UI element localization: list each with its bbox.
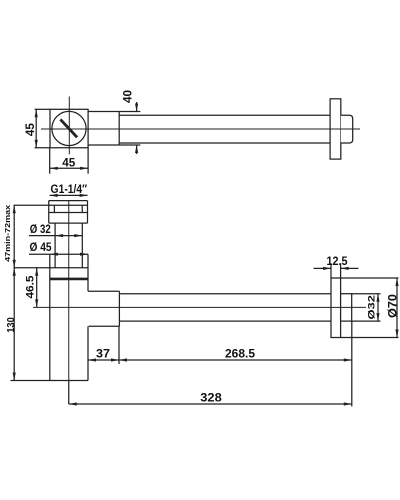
- compression nut (top view): [88, 111, 140, 113]
- G1-1/4 thread block: [49, 200, 88, 202]
- trap body cap top: [14, 267, 89, 269]
- dimension Ø32 inlet tube: [29, 235, 82, 237]
- svg-text:Ø32: Ø32: [366, 295, 377, 320]
- svg-text:47min-72max: 47min-72max: [3, 204, 12, 262]
- dimension 45 horizontal (bottom): [49, 148, 51, 174]
- round face with screw slot (top view): [52, 111, 86, 145]
- svg-text:40: 40: [121, 90, 135, 103]
- svg-text:45: 45: [23, 123, 37, 136]
- dimension 130: [13, 268, 15, 381]
- horizontal centerline (top view axis): [41, 128, 360, 130]
- outlet pipe: [119, 293, 331, 295]
- dimension Ø45 body: [29, 253, 88, 255]
- dimension G1-1/4 thread: [50, 194, 88, 196]
- svg-text:46.5: 46.5: [24, 276, 36, 299]
- svg-text:328: 328: [200, 390, 222, 404]
- svg-text:Ø 32: Ø 32: [30, 222, 51, 236]
- dimension 268.5: [119, 359, 352, 361]
- svg-text:268.5: 268.5: [225, 347, 255, 361]
- screw slot diagonal: [60, 119, 77, 137]
- outlet axis centerline: [33, 306, 366, 308]
- svg-text:Ø70: Ø70: [387, 294, 399, 318]
- svg-text:G1-1/4″: G1-1/4″: [51, 182, 88, 196]
- dimension 46.5: [36, 268, 38, 308]
- inlet tube: [54, 223, 56, 268]
- pipe stub behind wall (bottom view): [341, 294, 352, 321]
- outlet tube (top view): [119, 114, 330, 116]
- vertical centerline of wall plate: [68, 97, 70, 155]
- trap body (bottle): [49, 268, 51, 381]
- svg-text:130: 130: [6, 317, 17, 333]
- svg-text:Ø 45: Ø 45: [30, 240, 52, 254]
- dimension 12.5 flange: [314, 267, 332, 269]
- dimension Ø70 flange: [341, 277, 399, 279]
- dimension Ø32 wall pipe: [352, 293, 381, 295]
- wall flange (bottom view): [331, 278, 341, 338]
- pipe stub behind wall (top view): [341, 115, 353, 143]
- svg-text:37: 37: [96, 346, 110, 360]
- outlet nut: [88, 290, 119, 292]
- dimension 328: [69, 403, 352, 405]
- svg-text:12.5: 12.5: [327, 254, 348, 268]
- trap body shoulder thick line: [50, 278, 88, 281]
- dimension 37: [88, 359, 119, 361]
- square wall plate (top view): [50, 109, 88, 147]
- svg-text:45: 45: [62, 156, 75, 170]
- wall flange (top view): [330, 99, 341, 159]
- dimension 45 vertical (left): [35, 108, 50, 110]
- dimension 40 (tube nut): [136, 102, 138, 112]
- inlet axis centerline: [68, 201, 70, 404]
- dimension 47min-72max: [13, 205, 15, 267]
